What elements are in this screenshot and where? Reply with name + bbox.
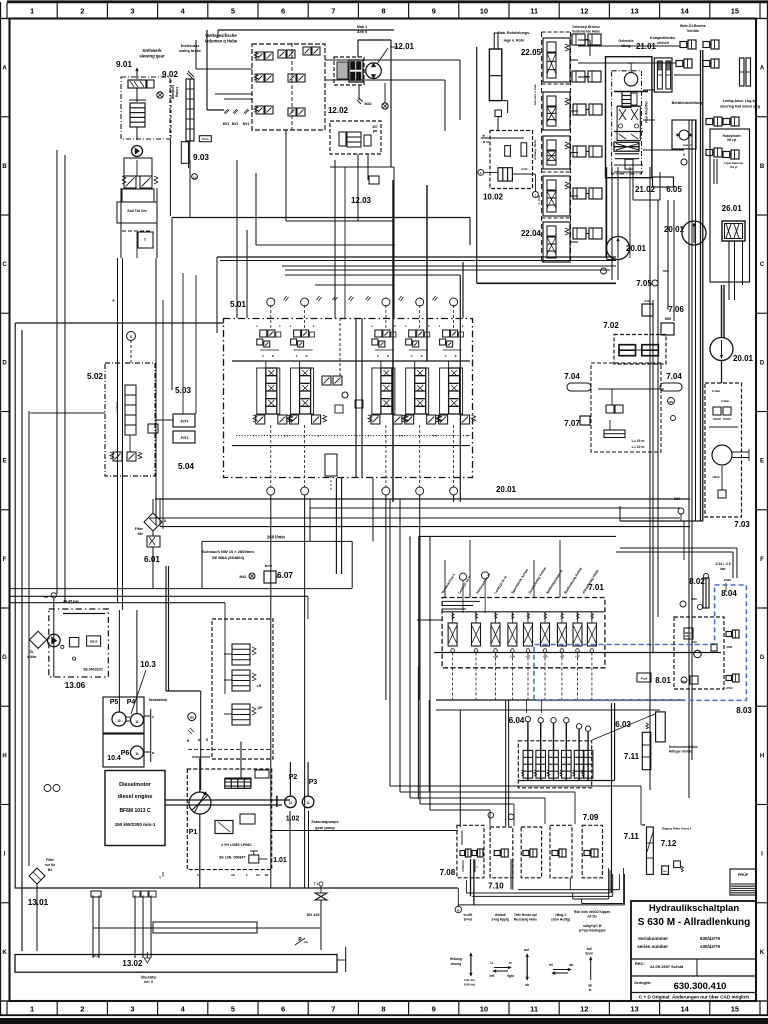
svg-text:-P3T4: -P3T4	[180, 436, 189, 440]
svg-text:2.4bar: 2.4bar	[712, 389, 721, 393]
svg-text:P: P	[246, 873, 248, 877]
svg-text:Anh II: Anh II	[357, 30, 367, 34]
svg-text:höh-drü: höh-drü	[464, 978, 475, 982]
svg-text:Senn: Senn	[585, 952, 593, 956]
svg-text:150 kW/2300 min-1: 150 kW/2300 min-1	[115, 822, 156, 827]
svg-text:D: D	[760, 360, 765, 366]
svg-text:7.09: 7.09	[583, 813, 599, 822]
svg-text:K: K	[760, 950, 765, 956]
svg-text:m=öft: m=öft	[464, 913, 474, 917]
svg-text:Drehwerk: Drehwerk	[142, 48, 162, 53]
svg-text:-M2T2: -M2T2	[264, 564, 273, 568]
svg-text:Mab. Rohrleitungs-: Mab. Rohrleitungs-	[498, 31, 531, 35]
svg-text:M42: M42	[240, 575, 247, 579]
svg-text:s30/42/79: s30/42/79	[700, 944, 721, 949]
svg-text:Rüh Indn VebO2 Kippen: Rüh Indn VebO2 Kippen	[574, 910, 610, 914]
svg-text:6.01: 6.01	[144, 555, 160, 564]
svg-text:Schlauch NW 10 × 2800mm: Schlauch NW 10 × 2800mm	[202, 549, 254, 554]
svg-text:12.02: 12.02	[328, 106, 349, 115]
svg-text:22.05.1997 Schdd: 22.05.1997 Schdd	[650, 964, 684, 969]
svg-text:B: B	[306, 354, 308, 358]
svg-text:-M8: -M8	[641, 823, 646, 827]
svg-text:Ventile: Ventile	[687, 29, 699, 33]
svg-text:L= 19 m: L= 19 m	[632, 439, 645, 443]
svg-text:2: 2	[80, 1005, 84, 1014]
svg-text:Anh.bet. n.Zub: Anh.bet. n.Zub	[533, 84, 537, 105]
svg-text:Behälterbelüftung: Behälterbelüftung	[672, 101, 703, 105]
svg-text:14: 14	[681, 7, 690, 16]
svg-text:Hydraulikschaltplan: Hydraulikschaltplan	[649, 903, 739, 914]
svg-text:7.06: 7.06	[668, 305, 684, 314]
svg-text:Filter: Filter	[135, 527, 144, 531]
svg-text:11: 11	[135, 752, 139, 756]
svg-text:HO: HO	[44, 595, 49, 599]
svg-text:S 630 M - Allradlenkung: S 630 M - Allradlenkung	[638, 917, 750, 928]
svg-text:L= 10 m: L= 10 m	[632, 445, 645, 449]
svg-text:A: A	[377, 354, 379, 358]
svg-text:Anbaug. Hebe: Anbaug. Hebe	[533, 140, 537, 160]
svg-text:6.04: 6.04	[509, 716, 525, 725]
svg-text:diesel engine: diesel engine	[118, 794, 153, 800]
svg-text:12.01: 12.01	[394, 42, 415, 51]
svg-text:DN 125: DN 125	[307, 913, 320, 917]
svg-text:2: 2	[80, 7, 84, 16]
svg-text:6: 6	[281, 7, 285, 16]
svg-text:7.04: 7.04	[564, 372, 580, 381]
svg-text:11: 11	[530, 7, 538, 16]
svg-text:H: H	[760, 753, 764, 759]
svg-text:M25: M25	[691, 597, 697, 601]
svg-text:7.12: 7.12	[661, 839, 677, 848]
svg-text:einheit: einheit	[657, 41, 669, 45]
svg-text:Lenkg: Lenkg	[175, 87, 179, 97]
svg-text:tel: tel	[549, 963, 553, 967]
svg-text:13.02: 13.02	[122, 959, 143, 968]
svg-text:12.03: 12.03	[351, 196, 372, 205]
svg-text:Dieselmotor: Dieselmotor	[119, 782, 152, 788]
svg-text:12: 12	[580, 7, 588, 16]
svg-text:1.01: 1.01	[273, 857, 287, 864]
svg-text:ab: ab	[588, 984, 592, 988]
svg-text:chsrng: chsrng	[451, 962, 462, 966]
svg-text:Serialnummer: Serialnummer	[638, 936, 668, 941]
svg-text:+0.9b: +0.9b	[521, 167, 528, 171]
svg-text:630.300.410: 630.300.410	[674, 981, 727, 992]
svg-text:3: 3	[130, 1005, 134, 1014]
svg-text:psi: psi	[373, 129, 378, 133]
svg-text:20.01: 20.01	[733, 354, 754, 363]
svg-text:n. Zub: n. Zub	[537, 195, 541, 204]
svg-text:10.02: 10.02	[483, 193, 504, 202]
svg-text:ms: ms	[304, 940, 309, 944]
svg-text:7.04: 7.04	[666, 372, 682, 381]
svg-text:11: 11	[289, 801, 293, 805]
svg-text:gear pump: gear pump	[315, 826, 335, 830]
svg-text:Ölgang Hikle Viseq 4: Ölgang Hikle Viseq 4	[662, 825, 692, 830]
svg-text:9.01: 9.01	[116, 60, 132, 69]
svg-text:40-45 bar: 40-45 bar	[63, 600, 79, 604]
svg-text:M 16: M 16	[483, 140, 490, 144]
svg-text:20.01: 20.01	[496, 485, 517, 494]
svg-text:Lenkung: Lenkung	[171, 85, 175, 99]
svg-text:B: B	[387, 354, 389, 358]
svg-text:11: 11	[530, 1005, 538, 1014]
svg-text:1: 1	[30, 1005, 34, 1014]
svg-text:T 1: T 1	[314, 882, 319, 886]
svg-text:7.07: 7.07	[564, 419, 580, 428]
svg-text:13: 13	[630, 1005, 638, 1014]
svg-text:A: A	[2, 66, 7, 72]
svg-text:8: 8	[164, 519, 166, 523]
svg-text:5: 5	[231, 7, 235, 16]
svg-text:Teile Hesse kpl: Teile Hesse kpl	[514, 913, 537, 917]
svg-text:Li: Li	[490, 961, 493, 965]
svg-text:Komplettlenks-: Komplettlenks-	[650, 36, 677, 40]
svg-text:+XF: +XF	[575, 655, 580, 659]
svg-text:Inh: S: Inh: S	[144, 980, 153, 984]
svg-text:Lenkg.Ausz. Lkg.zyl: Lenkg.Ausz. Lkg.zyl	[723, 99, 757, 103]
svg-text:F: F	[760, 557, 764, 563]
svg-text:BF6M 1013 C: BF6M 1013 C	[119, 808, 151, 814]
svg-text:lift cyl: lift cyl	[727, 138, 736, 142]
svg-text:right: right	[507, 974, 515, 978]
svg-text:ltd yr: ltd yr	[730, 165, 738, 169]
svg-text:15: 15	[731, 7, 739, 16]
svg-text:+XB: +XB	[510, 655, 515, 659]
svg-text:Nutzwähub: Nutzwähub	[149, 698, 167, 702]
svg-text:B: B	[272, 354, 274, 358]
svg-text:7.08: 7.08	[440, 868, 456, 877]
svg-text:A: A	[760, 66, 765, 72]
svg-text:P1: P1	[189, 829, 198, 836]
svg-text:Mab 1: Mab 1	[357, 25, 367, 29]
svg-text:Drehmomentstütze: Drehmomentstütze	[669, 745, 698, 749]
svg-text:H: H	[2, 753, 6, 759]
svg-text:Drehkranz: Drehkranz	[181, 44, 200, 48]
svg-text:-PM2: -PM2	[726, 645, 733, 649]
svg-text:DB12: DB12	[90, 640, 98, 644]
svg-text:8: 8	[381, 1005, 385, 1014]
svg-text:22.05: 22.05	[521, 48, 542, 57]
svg-text:Ölbehälter: Ölbehälter	[141, 975, 158, 980]
svg-text:MV1: MV1	[243, 122, 250, 126]
svg-text:Gelenkzyl Bremse: Gelenkzyl Bremse	[572, 25, 600, 29]
svg-text:13: 13	[630, 7, 638, 16]
svg-text:slewing gear: slewing gear	[139, 54, 165, 59]
svg-text:filtr: filtr	[138, 532, 144, 536]
svg-text:12: 12	[580, 1005, 588, 1014]
svg-text:A: A	[262, 354, 264, 358]
svg-text:10bar: 10bar	[712, 475, 720, 479]
svg-text:11: 11	[135, 720, 139, 724]
svg-text:Messanlg Hebe: Messanlg Hebe	[514, 918, 537, 922]
svg-text:Betr.Öl-Brems: Betr.Öl-Brems	[680, 23, 706, 28]
svg-text:PRÜF: PRÜF	[738, 872, 749, 877]
svg-text:3: 3	[130, 7, 134, 16]
svg-text:P6: P6	[121, 750, 130, 757]
svg-text:5.01: 5.01	[230, 300, 246, 309]
svg-text:Flow Amplifier: Flow Amplifier	[645, 100, 649, 123]
svg-text:✳: ✳	[482, 134, 485, 138]
svg-text:9.03: 9.03	[193, 153, 209, 162]
svg-text:-V03: -V03	[691, 640, 697, 644]
svg-text:Gelenkte: Gelenkte	[618, 39, 633, 43]
svg-text:+XM: +XM	[493, 655, 498, 659]
svg-text:8: 8	[381, 7, 385, 16]
svg-text:630/42/79: 630/42/79	[700, 936, 721, 941]
svg-text:260 l/min: 260 l/min	[267, 535, 285, 540]
svg-text:7.02: 7.02	[603, 321, 619, 330]
svg-text:ab: ab	[525, 983, 529, 987]
svg-text:13.06: 13.06	[65, 681, 86, 690]
svg-text:M8: M8	[190, 716, 194, 720]
svg-text:Zahnradpumpe: Zahnradpumpe	[311, 820, 338, 824]
svg-text:M1: M1	[256, 873, 260, 877]
svg-text:7.10: 7.10	[488, 882, 504, 891]
svg-text:M1: M1	[48, 868, 53, 872]
svg-text:Pum: Pum	[641, 677, 648, 681]
svg-text:A: A	[445, 354, 447, 358]
svg-text:+XD: +XD	[542, 655, 547, 659]
svg-text:8.04: 8.04	[721, 589, 737, 598]
svg-text:E: E	[760, 459, 764, 465]
svg-text:kühler: kühler	[27, 655, 37, 659]
svg-text:Filter: Filter	[46, 858, 55, 862]
svg-text:10.4: 10.4	[107, 755, 121, 762]
svg-text:A: A	[296, 354, 298, 358]
svg-text:MV2: MV2	[232, 122, 239, 126]
svg-text:SE 040292/2: SE 040292/2	[83, 668, 103, 672]
svg-text:(som Hebfg): (som Hebfg)	[551, 918, 570, 922]
svg-text:UP: UP	[258, 706, 263, 710]
svg-text:E: E	[2, 459, 6, 465]
svg-text:8.01: 8.01	[655, 676, 671, 685]
svg-text:C + D Original. Änderungen nur: C + D Original. Änderungen nur über CAD …	[639, 994, 749, 1000]
svg-text:11: 11	[117, 719, 121, 723]
svg-text:+XC: +XC	[525, 655, 530, 659]
svg-text:Hebung: Hebung	[450, 957, 462, 961]
svg-text:MV3: MV3	[223, 122, 230, 126]
svg-text:+PH3: +PH3	[725, 686, 733, 690]
svg-text:re: re	[509, 961, 512, 965]
svg-text:4 YH LVMS LP08C: 4 YH LVMS LP08C	[221, 843, 252, 847]
svg-text:Getr.öl: Getr.öl	[683, 143, 693, 147]
svg-text:bar: bar	[720, 567, 726, 571]
svg-text:swing brake: swing brake	[179, 49, 201, 53]
svg-text:B: B	[2, 164, 7, 170]
svg-text:G: G	[760, 655, 765, 661]
svg-text:13.01: 13.01	[28, 898, 49, 907]
svg-text:22.04: 22.04	[521, 229, 542, 238]
svg-text:9.02: 9.02	[162, 70, 178, 79]
svg-text:+XE: +XE	[559, 655, 564, 659]
svg-text:7.11: 7.11	[624, 752, 640, 761]
svg-text:nit 2ts: nit 2ts	[588, 915, 598, 919]
svg-text:Volumen q Hebe: Volumen q Hebe	[205, 39, 238, 44]
svg-text:M50: M50	[665, 317, 671, 321]
svg-text:S: S	[197, 873, 199, 877]
svg-text:C: C	[2, 262, 7, 268]
svg-text:15: 15	[731, 1005, 739, 1014]
svg-text:A: A	[411, 354, 413, 358]
svg-text:F: F	[3, 557, 7, 563]
svg-text:10.3: 10.3	[140, 660, 156, 669]
svg-text:7.11: 7.11	[624, 832, 640, 841]
svg-text:pr=spi Kastkipper: pr=spi Kastkipper	[579, 929, 607, 933]
svg-text:M2: M2	[265, 873, 269, 877]
svg-text:REC:: REC:	[635, 961, 645, 966]
svg-text:HD: HD	[231, 873, 235, 877]
svg-text:Pum: Pum	[202, 137, 209, 141]
svg-text:26.01: 26.01	[722, 204, 743, 213]
svg-text:K: K	[2, 950, 7, 956]
svg-text:steering fwd wheel strg: steering fwd wheel strg	[720, 105, 760, 109]
svg-text:2bar: 2bar	[685, 634, 690, 638]
svg-text:1: 1	[30, 7, 34, 16]
svg-text:6.05: 6.05	[666, 185, 682, 194]
svg-text:Mw: Mw	[682, 681, 686, 683]
svg-text:G: G	[2, 655, 7, 661]
svg-text:5.02: 5.02	[87, 372, 103, 381]
svg-text:2.4bar: 2.4bar	[721, 399, 730, 403]
svg-text:1.02: 1.02	[286, 816, 300, 823]
svg-text:Vorderachse Hebe: Vorderachse Hebe	[572, 30, 600, 34]
svg-text:B: B	[760, 164, 765, 170]
svg-text:SE NBA (664864): SE NBA (664864)	[212, 555, 245, 560]
svg-text:8.03: 8.03	[736, 706, 752, 715]
svg-text:9: 9	[432, 7, 436, 16]
svg-text:H01: H01	[669, 400, 674, 404]
svg-text:nur für: nur für	[45, 863, 56, 867]
svg-text:te=ed: te=ed	[464, 918, 472, 922]
svg-text:10: 10	[480, 7, 488, 16]
svg-text:lage n. Rohr: lage n. Rohr	[504, 39, 525, 43]
svg-text:D: D	[2, 360, 7, 366]
svg-text:G: G	[206, 738, 209, 742]
svg-text:LR: LR	[257, 684, 262, 688]
svg-text:Öl-: Öl-	[30, 649, 34, 654]
svg-text:6.07: 6.07	[277, 571, 293, 580]
svg-text:2-krg Kpplg: 2-krg Kpplg	[491, 918, 509, 922]
svg-text:Häng 2: Häng 2	[555, 913, 566, 917]
svg-text:-P2T4: -P2T4	[180, 420, 189, 424]
svg-text:te: te	[589, 988, 592, 992]
svg-text:nötig+lpC M: nötig+lpC M	[583, 924, 602, 928]
svg-text:7: 7	[331, 1005, 335, 1014]
svg-text:Weltspezifische: Weltspezifische	[205, 33, 237, 38]
svg-text:ab: ab	[569, 963, 573, 967]
svg-text:1003-ind: 1003-ind	[464, 983, 476, 987]
svg-text:9: 9	[432, 1005, 436, 1014]
svg-text:14: 14	[681, 1005, 690, 1014]
svg-text:B: B	[421, 354, 423, 358]
svg-text:P5: P5	[110, 699, 119, 706]
svg-text:6: 6	[281, 1005, 285, 1014]
svg-text:-PH22: -PH22	[723, 578, 731, 582]
svg-text:Hilfsger Ventile: Hilfsger Ventile	[669, 750, 692, 754]
svg-text:7: 7	[331, 7, 335, 16]
svg-text:Zwil Teil Dre: Zwil Teil Dre	[127, 209, 147, 213]
svg-text:series number: series number	[637, 944, 668, 949]
svg-text:11: 11	[306, 801, 310, 805]
svg-text:7.03: 7.03	[734, 520, 750, 529]
svg-text:5: 5	[231, 1005, 235, 1014]
svg-text:2.34 / -2.5: 2.34 / -2.5	[715, 562, 730, 566]
svg-text:5.04: 5.04	[178, 462, 194, 471]
svg-text:OrdngNr.: OrdngNr.	[634, 980, 651, 985]
svg-text:B: B	[455, 354, 457, 358]
svg-text:Umlauf: Umlauf	[495, 913, 507, 917]
svg-text:SE 13N. 05684T: SE 13N. 05684T	[219, 856, 246, 860]
svg-text:C: C	[760, 262, 765, 268]
svg-text:M42: M42	[365, 102, 372, 106]
svg-text:P3: P3	[309, 779, 318, 786]
svg-text:10: 10	[480, 1005, 488, 1014]
